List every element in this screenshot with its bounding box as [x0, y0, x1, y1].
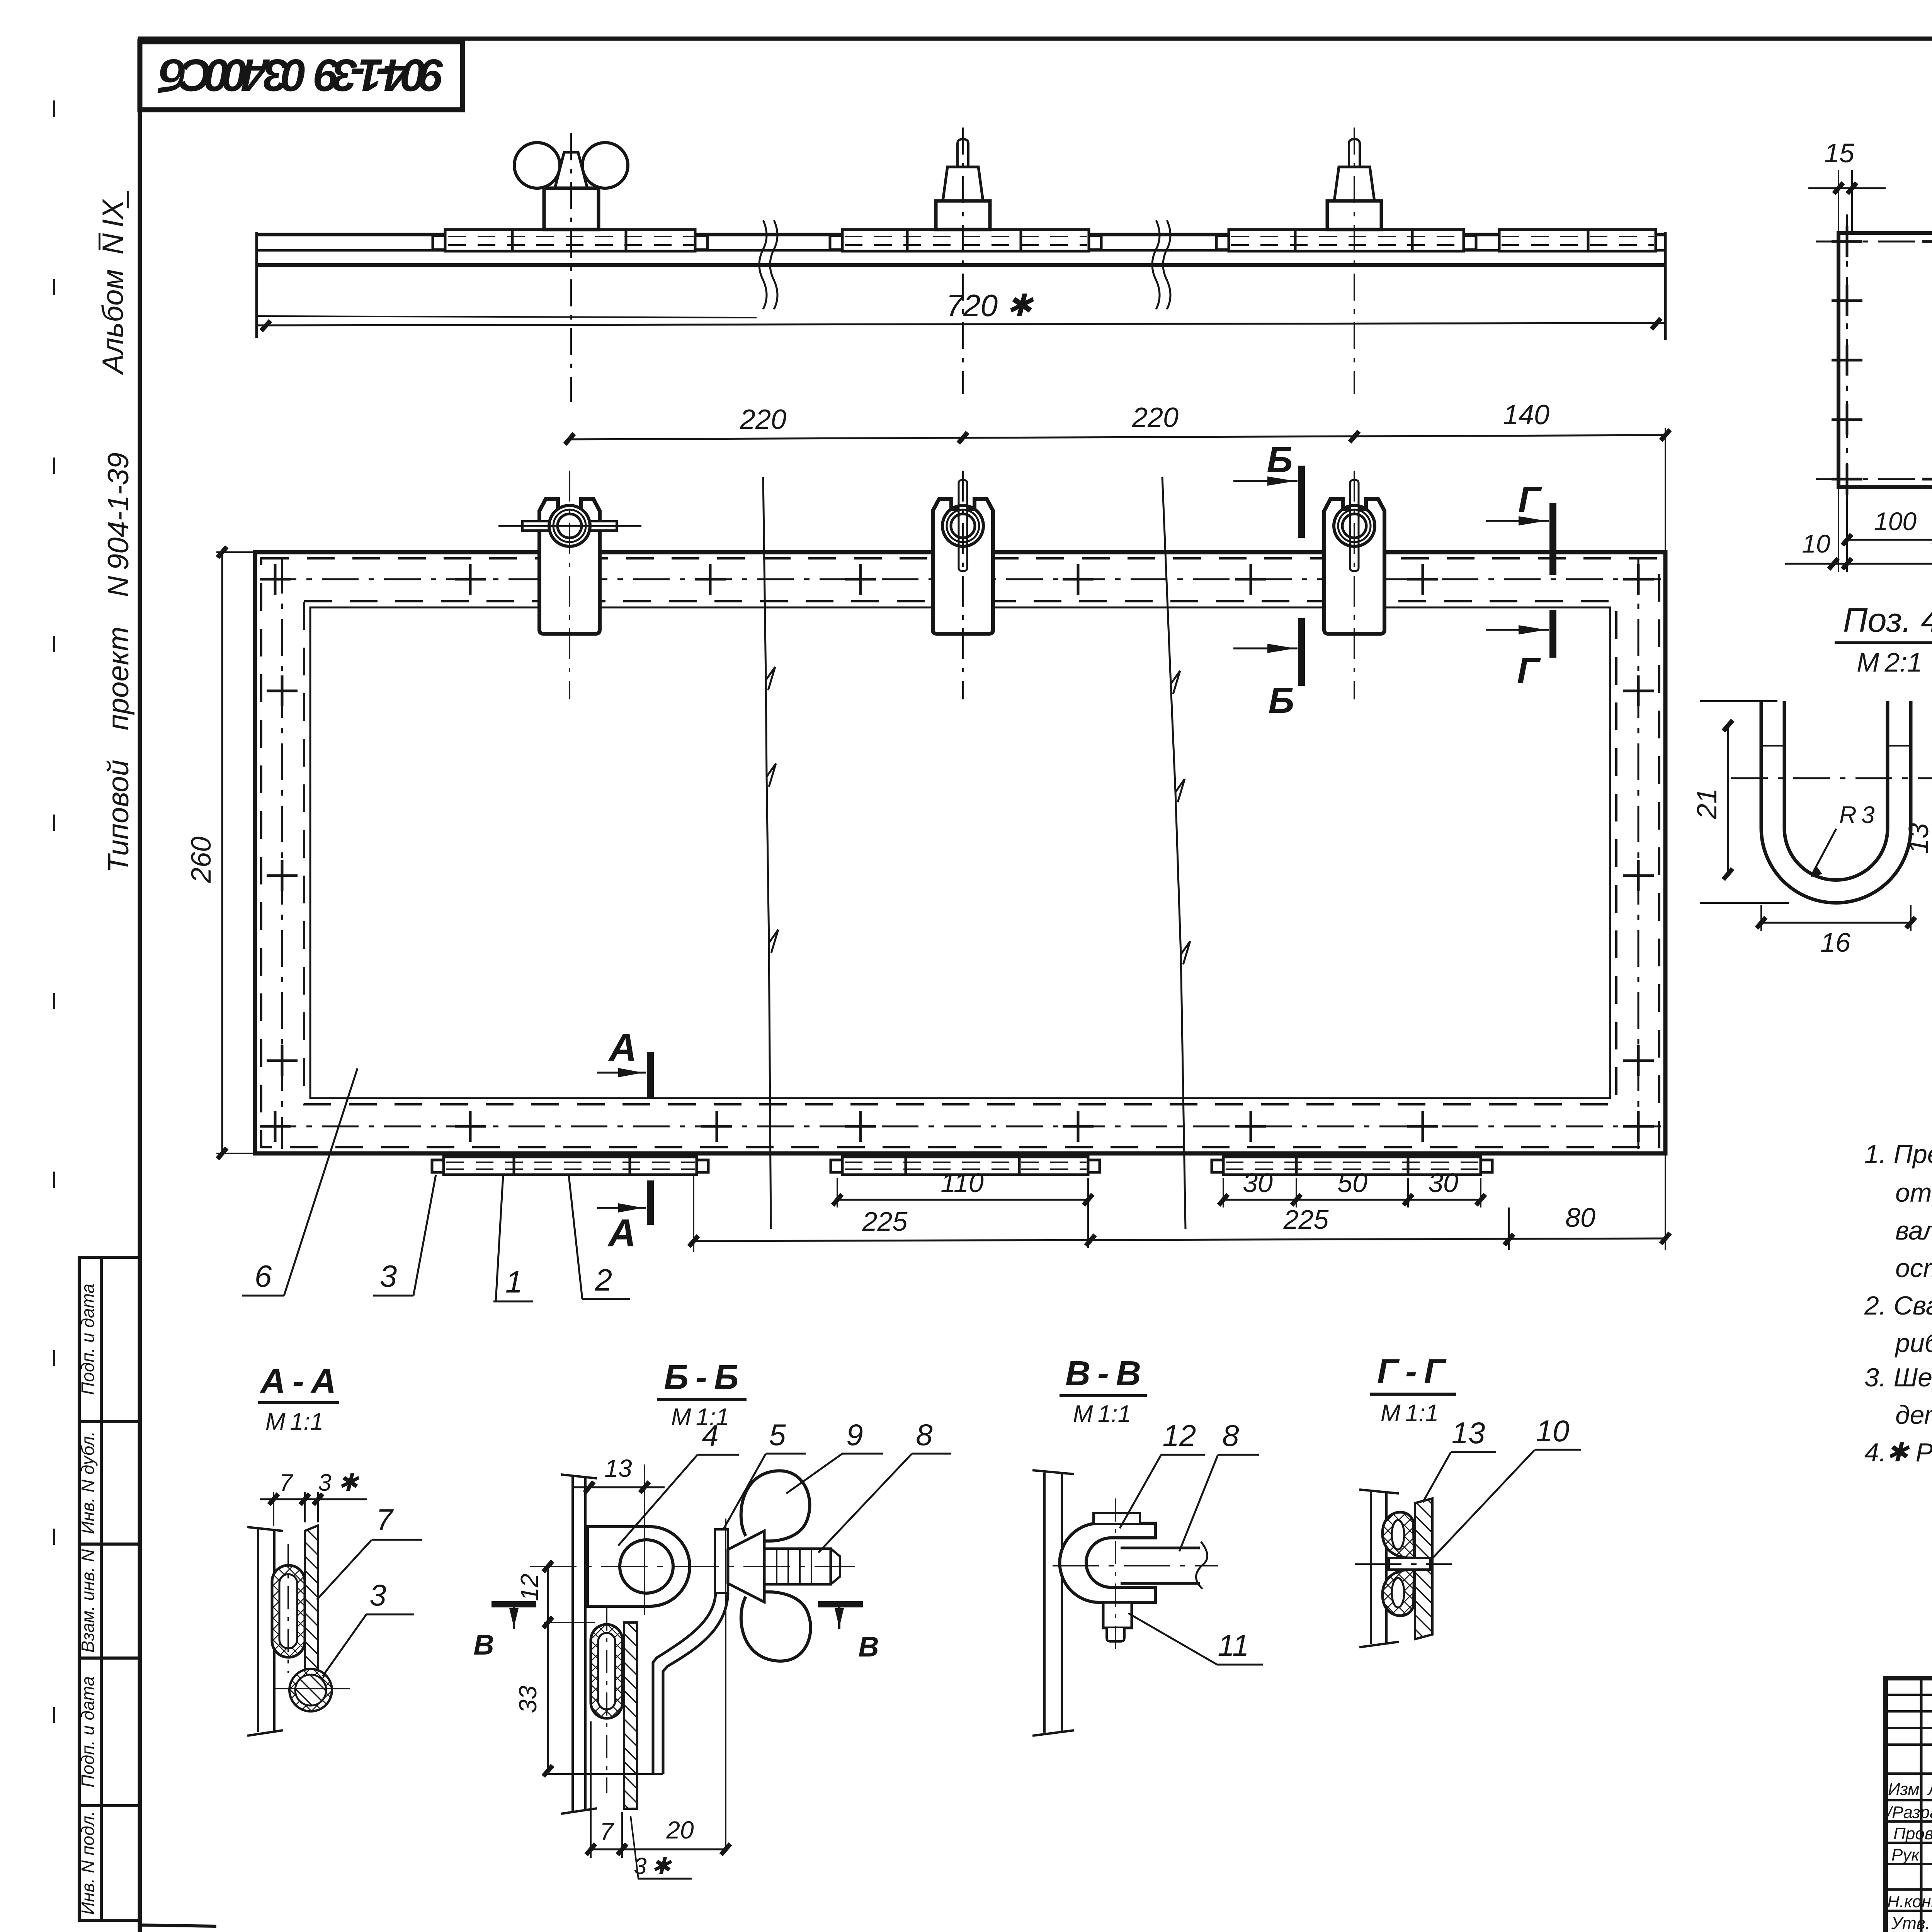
callout 1	[493, 1175, 533, 1301]
svg-text:7: 7	[600, 1818, 614, 1845]
svg-text:А: А	[607, 1211, 636, 1255]
clamp 3 plate	[1324, 499, 1384, 634]
dim 260 left	[221, 552, 223, 1153]
poz4 arm inner lines	[1761, 745, 1784, 747]
svg-text:110: 110	[940, 1168, 984, 1198]
svg-text:15: 15	[1824, 138, 1855, 168]
door inner opening contour	[310, 607, 1610, 1098]
svg-text:7: 7	[376, 1503, 394, 1537]
svg-text:R 3: R 3	[1839, 802, 1875, 828]
poz6 centerline top	[1816, 241, 1932, 243]
svg-text:225: 225	[1283, 1204, 1329, 1235]
dim 720 tick left	[261, 321, 270, 331]
poz4 U centerline	[1731, 777, 1932, 779]
centerline top	[260, 578, 1661, 580]
margin table labels	[78, 1284, 98, 1915]
inverted stamp box top-left	[140, 42, 463, 110]
svg-text:20: 20	[666, 1816, 694, 1844]
svg-text:Б - Б: Б - Б	[664, 1358, 738, 1397]
break line 2 through door	[1162, 477, 1190, 1229]
A-A hatched plate	[305, 1526, 318, 1671]
frame bottom-left stub	[140, 1925, 216, 1926]
B-B bottom dims 7 20	[591, 1849, 726, 1850]
clamp 1 plate	[539, 499, 600, 634]
top view bar: mid line	[257, 249, 1665, 252]
svg-text:30: 30	[1243, 1168, 1273, 1198]
wing nut 1 left wing	[514, 143, 560, 188]
svg-text:50: 50	[1337, 1168, 1367, 1198]
poz6 centerline bottom	[1816, 478, 1932, 480]
svg-text:Изм: Изм	[1888, 1780, 1920, 1799]
B-B bolt tip	[831, 1549, 840, 1584]
svg-text:Типовой проект N 904-1-39: Типовой проект N 904-1-39	[102, 452, 135, 873]
svg-text:2: 2	[595, 1263, 612, 1297]
svg-text:В: В	[473, 1629, 494, 1661]
svg-text:225: 225	[862, 1206, 908, 1236]
dim 110	[837, 1199, 1088, 1201]
poz4 dim 21	[1700, 700, 1777, 702]
B-B wall sheet	[561, 1475, 597, 1814]
svg-text:рибаемых деталей по ГОСТ 526: рибаемых деталей по ГОСТ 5264-69.	[1895, 1328, 1932, 1358]
fold line dashes left margin	[53, 100, 55, 1793]
wing nut 1 right wing	[582, 143, 628, 188]
top dim line 220/220/140	[570, 435, 1665, 439]
G-G pin	[1389, 1558, 1430, 1570]
group3 boxes	[1229, 230, 1295, 251]
V-V clamp top cap	[1094, 1513, 1140, 1524]
left table header labels	[1886, 1780, 1932, 1932]
packing dashes	[448, 236, 1654, 245]
B-B mark V left	[492, 1601, 536, 1607]
svg-text:13: 13	[604, 1454, 632, 1482]
svg-text:Подп. и дата: Подп. и дата	[78, 1284, 98, 1395]
section mark A upper	[597, 1026, 650, 1097]
bolt 2 taper	[943, 167, 983, 201]
svg-text:Н.контр.: Н.контр.	[1887, 1892, 1932, 1911]
B-B bent strap	[653, 1593, 728, 1774]
svg-text:В: В	[858, 1631, 879, 1663]
svg-text:1: 1	[505, 1265, 523, 1299]
B-B centerlines	[530, 1566, 855, 1567]
hinge strips bottom	[432, 1157, 1492, 1175]
callout 2	[569, 1175, 630, 1299]
svg-text:М 2:1: М 2:1	[1857, 647, 1922, 677]
clamp 3 rod	[1350, 480, 1359, 571]
G-G wing nut section lower lobe	[1383, 1570, 1414, 1616]
svg-text:16: 16	[1820, 927, 1850, 957]
G-G hatched plate	[1415, 1498, 1432, 1639]
svg-text:80: 80	[1565, 1202, 1595, 1233]
svg-text:5: 5	[769, 1418, 786, 1452]
svg-text:Инв. N подл.: Инв. N подл.	[78, 1811, 98, 1915]
section mark B upper	[1233, 439, 1301, 538]
svg-text:904-1-39 03.400Сб: 904-1-39 03.400Сб	[157, 49, 444, 100]
svg-text:30: 30	[1428, 1168, 1458, 1198]
group1 clip right	[695, 236, 707, 250]
svg-text:10: 10	[1536, 1414, 1570, 1448]
section mark B lower	[1233, 618, 1301, 721]
wing nut 1 cone	[555, 152, 587, 188]
svg-text:М 1:1: М 1:1	[265, 1408, 323, 1435]
svg-text:Подп. и дата: Подп. и дата	[78, 1676, 98, 1787]
A-A left sheet	[247, 1527, 283, 1736]
group2 boxes	[842, 230, 907, 251]
svg-text:валов – по В ₇,: валов – по В ₇,	[1895, 1216, 1932, 1245]
group1 boxes	[445, 230, 512, 251]
top view bar: right end edge	[1664, 232, 1667, 340]
svg-text:3. Шероховатость обрабатываем: 3. Шероховатость обрабатываемых поверхно…	[1864, 1363, 1932, 1392]
packing strip groups	[433, 230, 1656, 251]
clamp 3 ring	[1334, 505, 1375, 546]
svg-text:8: 8	[1222, 1418, 1239, 1452]
svg-text:3: 3	[369, 1578, 386, 1612]
title block left table horizontals	[1886, 1695, 1932, 1911]
wing nut 1 base block	[544, 188, 599, 230]
B-B pivot pin	[715, 1529, 728, 1593]
B-B eye hole	[620, 1540, 673, 1593]
hole crosses left column	[267, 675, 298, 1076]
callout 6	[242, 1068, 357, 1296]
poz6 holes bottom row	[1832, 464, 1932, 495]
svg-text:13: 13	[1903, 823, 1932, 854]
bolt 3 base block	[1327, 201, 1381, 230]
wing nut 1 centerline	[570, 133, 572, 402]
svg-text:остальных – по СМ в.: остальных – по СМ в.	[1895, 1253, 1932, 1283]
top view bar: left end edge	[255, 232, 258, 338]
clamp1 ring horizontal centerline	[498, 525, 641, 527]
A-A rubber stadium ring	[272, 1565, 305, 1657]
svg-text:Рук.: Рук.	[1891, 1845, 1924, 1864]
bolt 2 base block	[936, 201, 990, 230]
V-V rod 8	[1121, 1548, 1200, 1583]
clamp 3 centerline	[1354, 471, 1355, 699]
svg-text:1. Предельные отклонения раз: 1. Предельные отклонения размеров:	[1864, 1139, 1932, 1169]
dims 30 50 30	[1223, 1199, 1481, 1201]
hole crosses right column	[1623, 675, 1654, 1076]
section mark G upper	[1486, 479, 1553, 575]
poz4 U-bracket inner	[1784, 701, 1888, 880]
svg-text:720 ✱: 720 ✱	[946, 288, 1034, 323]
svg-text:А: А	[608, 1026, 637, 1069]
svg-text:М 1:1: М 1:1	[1381, 1400, 1439, 1427]
dim 21 line for poz4	[1727, 723, 1729, 877]
B-B rubber stadium	[591, 1624, 622, 1718]
poz6 plate outline	[1838, 233, 1932, 487]
B-B wing bottom	[741, 1592, 811, 1661]
dim row 225/225/80	[694, 1238, 1665, 1241]
door outer contour	[255, 552, 1665, 1153]
V-V wall sheet	[1032, 1470, 1074, 1736]
svg-text:220: 220	[740, 404, 786, 435]
top view bar: top edge	[257, 233, 1665, 236]
svg-text:А - А: А - А	[260, 1362, 336, 1401]
centerline left	[281, 557, 283, 1149]
svg-text:Пров:: Пров:	[1893, 1824, 1932, 1843]
clamp 1 pin bar	[522, 521, 617, 531]
clamp 1 centerline	[569, 471, 570, 699]
group4 boxes right end	[1499, 230, 1588, 251]
top dim ticks	[565, 430, 1670, 444]
dim 720 line	[257, 323, 1665, 325]
G-G centerline	[1355, 1563, 1452, 1565]
svg-text:21: 21	[1692, 788, 1723, 820]
svg-text:8: 8	[916, 1418, 932, 1452]
svg-text:М 1:1: М 1:1	[1073, 1401, 1131, 1427]
bolt 3 centerline	[1354, 128, 1355, 394]
svg-text:140: 140	[1503, 400, 1549, 430]
svg-text:10: 10	[1802, 529, 1830, 558]
top dim extension lines	[1665, 428, 1666, 551]
poz6 bottom extensions	[1838, 489, 1932, 572]
svg-text:33: 33	[514, 1685, 542, 1713]
B-B eye bracket	[587, 1527, 690, 1606]
group3 clip left	[1216, 236, 1229, 250]
B-B dims 12 33	[547, 1566, 549, 1774]
poz6 bottom dim 100	[1847, 539, 1932, 541]
G-G left sheet	[1359, 1490, 1399, 1647]
svg-text:Альбом N̅ IХ̲: Альбом N̅ IХ̲	[97, 191, 129, 376]
hidden line rect inset127	[304, 601, 1616, 1104]
svg-text:отверстий – по А ₇,: отверстий – по А ₇,	[1895, 1178, 1932, 1207]
centerline right	[1638, 557, 1639, 1149]
A-A centerlines	[275, 1688, 350, 1689]
B-B hatched strip	[624, 1622, 637, 1809]
hole crosses bottom row	[260, 1111, 1654, 1142]
svg-text:4: 4	[702, 1418, 718, 1452]
title block left table verticals	[1921, 1678, 1932, 1932]
svg-text:2. Сварку производить по конт: 2. Сварку производить по контуру прилега…	[1864, 1291, 1932, 1320]
group2 clip left	[830, 236, 842, 250]
group3 clip right	[1464, 236, 1476, 250]
svg-text:9: 9	[846, 1418, 863, 1452]
svg-text:7: 7	[279, 1469, 294, 1496]
B-B mark V right	[818, 1601, 863, 1607]
svg-text:100: 100	[1874, 507, 1917, 536]
svg-text:12: 12	[515, 1573, 543, 1601]
centerline bottom	[260, 1126, 1661, 1128]
V-V U-clamp outer	[1060, 1523, 1156, 1602]
poz6 bottom dim 7x100	[1847, 563, 1932, 565]
svg-text:12: 12	[1163, 1418, 1196, 1452]
title block outer	[1886, 1678, 1932, 1932]
svg-text:3 ✱: 3 ✱	[318, 1469, 360, 1496]
V-V bolt below	[1103, 1602, 1132, 1628]
dim 720 tick right	[1651, 318, 1661, 329]
svg-text:Б: Б	[1268, 680, 1294, 721]
svg-text:4.✱ Размеры для справок.: 4.✱ Размеры для справок.	[1864, 1438, 1932, 1467]
bolt 3 rod	[1349, 139, 1360, 167]
poz6 centerline left	[1846, 214, 1848, 510]
svg-text:Б: Б	[1267, 439, 1293, 480]
hole crosses top row	[260, 564, 1654, 595]
group2 clip right	[1089, 236, 1101, 250]
svg-text:3: 3	[380, 1259, 397, 1293]
svg-text:11: 11	[1218, 1628, 1249, 1662]
poz6 holes left column	[1832, 285, 1862, 435]
B-B bolt shaft	[764, 1549, 831, 1584]
top view bar: bottom edge	[257, 263, 1665, 267]
svg-text:Утв.: Утв.	[1891, 1914, 1930, 1932]
group1 clip left	[433, 236, 445, 250]
hinge strip dashes	[446, 1162, 1479, 1169]
svg-text:Инв. N дубл.: Инв. N дубл.	[78, 1431, 98, 1534]
break mark 2 on bar	[1152, 220, 1170, 309]
svg-text:Г: Г	[1518, 479, 1542, 520]
margin table bottom-left	[79, 1257, 140, 1920]
callout 3	[373, 1175, 436, 1296]
bolt 2 centerline	[962, 128, 964, 394]
poz4 U-bracket outer	[1761, 701, 1911, 903]
clamp 2 rod	[959, 480, 967, 571]
G-G wing nut section upper lobe	[1383, 1512, 1414, 1558]
svg-text:В - В: В - В	[1065, 1354, 1141, 1393]
B-B cone	[728, 1531, 764, 1602]
svg-text:Г: Г	[1517, 650, 1541, 691]
door leaf edge line	[257, 316, 757, 318]
svg-text:6: 6	[255, 1259, 272, 1293]
section mark G lower	[1486, 610, 1553, 691]
svg-text:220: 220	[1132, 402, 1179, 433]
svg-text:деталей без чертежа – √.: деталей без чертежа – √.	[1895, 1400, 1932, 1430]
V-V centerlines	[1053, 1565, 1218, 1566]
clamp 2 ring	[942, 505, 983, 546]
bolt 2 rod	[957, 139, 968, 167]
break mark 1 on bar	[759, 220, 777, 309]
B-B wing top	[741, 1471, 810, 1541]
section mark A lower	[597, 1180, 650, 1255]
svg-text:М 1:1: М 1:1	[671, 1404, 729, 1430]
clamp 2 centerline	[962, 471, 964, 699]
svg-text:Поз. 4: Поз. 4	[1843, 601, 1932, 639]
poz6 holes top row	[1832, 226, 1932, 257]
clamp 1 ring	[549, 505, 590, 546]
svg-text:3 ✱: 3 ✱	[634, 1853, 672, 1879]
break line 1 through door	[763, 477, 778, 1229]
svg-text:260: 260	[186, 837, 217, 883]
svg-text:Взам. инв. N: Взам. инв. N	[78, 1549, 98, 1653]
poz4 dim 16 U	[1761, 922, 1911, 924]
A-A rod section circle	[289, 1669, 332, 1711]
svg-text:Г - Г: Г - Г	[1377, 1352, 1447, 1391]
svg-text:/Разраб.: /Разраб.	[1886, 1803, 1932, 1822]
hidden line rect inset16	[261, 558, 1659, 1147]
bolt 3 taper	[1334, 167, 1374, 201]
clamp 2 plate	[933, 499, 993, 634]
svg-text:13: 13	[1452, 1416, 1485, 1450]
